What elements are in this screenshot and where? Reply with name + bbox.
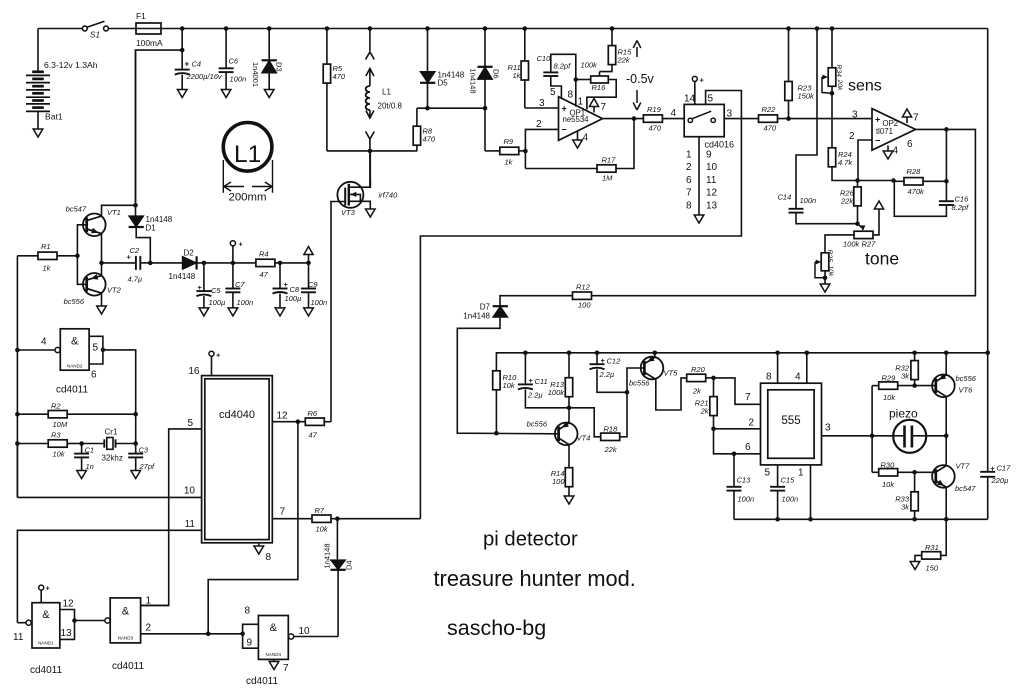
transistor VT7 bc547 bbox=[932, 465, 955, 488]
svg-text:6: 6 bbox=[91, 370, 97, 381]
transistor VT6 bc556 bbox=[932, 375, 955, 398]
wire: NAND3 input 1 bbox=[141, 604, 169, 606]
svg-text:R3: R3 bbox=[51, 431, 61, 440]
svg-text:4: 4 bbox=[583, 133, 589, 144]
svg-text:1n4148: 1n4148 bbox=[463, 312, 490, 321]
diode D1 1n4148 bbox=[133, 203, 138, 208]
counter cd4040 bbox=[202, 376, 273, 543]
svg-text:8.2pf: 8.2pf bbox=[554, 62, 572, 71]
wire: cd4040 pin 7 output bbox=[272, 518, 312, 520]
wire: fuse branch down-left bbox=[180, 48, 185, 53]
svg-text:11: 11 bbox=[185, 519, 196, 530]
svg-text:10M: 10M bbox=[53, 420, 68, 429]
resistor R2 10M bbox=[15, 412, 20, 417]
svg-text:7: 7 bbox=[913, 113, 919, 124]
svg-text:irf740: irf740 bbox=[379, 191, 399, 200]
supply arrow (OP1 pin 7) bbox=[593, 107, 595, 113]
svg-text:R25: R25 bbox=[826, 250, 833, 263]
wire: cd4016 output bbox=[724, 118, 758, 120]
svg-text:D6: D6 bbox=[492, 69, 501, 79]
wire: OP1 inverting input bbox=[525, 129, 558, 168]
svg-text:cd4011: cd4011 bbox=[30, 665, 63, 676]
svg-text:&: & bbox=[71, 336, 79, 348]
capacitor C17 220u bbox=[987, 353, 989, 472]
svg-text:10k: 10k bbox=[827, 266, 834, 278]
ground (C7) bbox=[228, 308, 238, 316]
analog switch cd4016 bbox=[684, 104, 724, 136]
capacitor C12 2.2u bbox=[595, 351, 600, 356]
potentiometer R27 100k tone bbox=[858, 224, 862, 228]
wire: left feedback rail bbox=[16, 256, 18, 498]
svg-text:tl071: tl071 bbox=[876, 127, 893, 136]
svg-text:bc556: bc556 bbox=[629, 379, 650, 388]
inductor L1 search coil bbox=[368, 26, 373, 31]
diode D7 1n4148 bbox=[493, 306, 508, 317]
nand gate NAND4 cd4011 bbox=[258, 616, 288, 660]
wire: bottom rail bbox=[734, 518, 988, 520]
svg-text:8: 8 bbox=[568, 90, 574, 101]
svg-text:20k: 20k bbox=[836, 79, 843, 92]
svg-text:D5: D5 bbox=[438, 79, 449, 88]
svg-text:bc547: bc547 bbox=[66, 205, 87, 214]
svg-text:10: 10 bbox=[299, 626, 311, 637]
svg-text:100n: 100n bbox=[230, 75, 247, 84]
svg-text:+: + bbox=[239, 240, 244, 249]
switch S1 bbox=[38, 28, 82, 30]
svg-text:6.3-12v 1.3Ah: 6.3-12v 1.3Ah bbox=[44, 60, 98, 70]
resistor R1 1k bbox=[17, 255, 38, 257]
svg-text:100k: 100k bbox=[581, 61, 599, 70]
resistor R11 bbox=[523, 26, 528, 31]
ground (R14) bbox=[564, 496, 574, 504]
svg-text:1: 1 bbox=[686, 150, 692, 161]
svg-text:9: 9 bbox=[247, 638, 253, 649]
svg-text:VT1: VT1 bbox=[107, 208, 121, 217]
svg-text:+: + bbox=[198, 283, 203, 292]
resistor R23 150k bbox=[786, 26, 791, 31]
svg-text:47: 47 bbox=[309, 431, 318, 440]
svg-text:5: 5 bbox=[708, 94, 714, 105]
capacitor C5 100u bbox=[203, 263, 205, 291]
potentiometer R25 10k bbox=[821, 253, 829, 271]
capacitor C13 100n bbox=[733, 454, 735, 487]
svg-text:ne5534: ne5534 bbox=[563, 115, 590, 124]
resistor R10 10k bbox=[493, 371, 500, 390]
ground (cd4040 pin 8) bbox=[258, 543, 260, 546]
potentiometer R34 sens bbox=[830, 26, 835, 31]
svg-text:6: 6 bbox=[745, 442, 751, 453]
svg-text:Bat1: Bat1 bbox=[45, 112, 63, 122]
svg-text:NAND1: NAND1 bbox=[38, 641, 54, 646]
svg-text:7: 7 bbox=[745, 392, 751, 403]
svg-text:2k: 2k bbox=[692, 387, 702, 396]
svg-text:2: 2 bbox=[536, 119, 542, 130]
svg-text:2.2µ: 2.2µ bbox=[527, 391, 543, 400]
svg-text:6: 6 bbox=[907, 139, 913, 150]
svg-text:VT7: VT7 bbox=[956, 462, 971, 471]
annotation -0.5v bbox=[636, 47, 638, 57]
capacitor C10 8.2pf bbox=[551, 76, 562, 99]
diode D6 1n4148 bbox=[483, 26, 488, 31]
ground (D3) bbox=[264, 90, 274, 98]
svg-text:VT4: VT4 bbox=[577, 434, 591, 443]
svg-text:10: 10 bbox=[706, 162, 718, 173]
svg-text:tone: tone bbox=[865, 249, 899, 269]
svg-text:R17: R17 bbox=[602, 156, 617, 165]
svg-text:NAND4: NAND4 bbox=[266, 652, 282, 657]
svg-text:22k: 22k bbox=[840, 197, 854, 206]
capacitor C7 100n bbox=[231, 261, 236, 266]
svg-text:11: 11 bbox=[13, 632, 24, 643]
svg-text:1k: 1k bbox=[505, 158, 514, 167]
battery Bat1 bbox=[37, 29, 39, 72]
svg-text:&: & bbox=[42, 609, 50, 621]
svg-text:C7: C7 bbox=[235, 280, 245, 289]
svg-text:+: + bbox=[562, 104, 567, 114]
coil L1 annotation circle bbox=[223, 123, 272, 172]
svg-text:R34: R34 bbox=[835, 65, 842, 78]
svg-text:2200µ/16v: 2200µ/16v bbox=[186, 72, 223, 81]
svg-text:22k: 22k bbox=[617, 56, 631, 65]
capacitor C14 100n bbox=[789, 208, 804, 210]
fuse F1 bbox=[108, 28, 136, 30]
svg-text:100: 100 bbox=[578, 301, 591, 310]
svg-text:6: 6 bbox=[686, 175, 692, 186]
resistor R9 bbox=[485, 150, 500, 152]
svg-text:R7: R7 bbox=[315, 506, 325, 515]
ground (battery) bbox=[33, 129, 43, 137]
ground (R25) bbox=[820, 284, 830, 292]
crystal Cr1 32khz bbox=[82, 443, 105, 445]
svg-text:C3: C3 bbox=[139, 446, 149, 455]
svg-text:treasure hunter mod.: treasure hunter mod. bbox=[434, 566, 636, 591]
svg-text:470: 470 bbox=[423, 135, 436, 144]
svg-text:10k: 10k bbox=[53, 450, 66, 459]
capacitor C6 bbox=[224, 26, 229, 31]
wire: cd4040 pin 12 output bbox=[272, 421, 305, 423]
svg-text:14: 14 bbox=[684, 94, 696, 105]
svg-text:10k: 10k bbox=[882, 480, 895, 489]
testpoint + (NAND1 pin14) bbox=[39, 585, 44, 590]
resistor R24 4.7k bbox=[831, 147, 833, 149]
wire: +V top rail bbox=[161, 28, 988, 30]
svg-text:27pf: 27pf bbox=[139, 462, 156, 471]
svg-text:4: 4 bbox=[41, 337, 47, 348]
svg-text:2: 2 bbox=[146, 623, 152, 634]
svg-text:+: + bbox=[216, 351, 221, 360]
svg-text:5: 5 bbox=[93, 343, 99, 354]
svg-text:1n4148: 1n4148 bbox=[169, 272, 196, 281]
ground (C4) bbox=[177, 90, 187, 98]
svg-text:32khz: 32khz bbox=[102, 454, 123, 463]
svg-text:+: + bbox=[284, 280, 289, 289]
resistor R33 3k bbox=[914, 472, 916, 492]
resistor R4 47 bbox=[256, 259, 275, 266]
svg-text:13: 13 bbox=[706, 200, 718, 211]
svg-text:R4: R4 bbox=[259, 250, 269, 259]
svg-text:2.2µ: 2.2µ bbox=[599, 370, 615, 379]
svg-text:9: 9 bbox=[706, 150, 712, 161]
svg-text:100k: 100k bbox=[548, 388, 566, 397]
svg-text:C1: C1 bbox=[85, 446, 95, 455]
resistor R26 22k bbox=[854, 187, 861, 206]
svg-text:470k: 470k bbox=[908, 187, 926, 196]
svg-text:L1: L1 bbox=[234, 141, 261, 168]
svg-text:10k: 10k bbox=[316, 525, 329, 534]
svg-text:+: + bbox=[601, 356, 606, 365]
svg-text:R2: R2 bbox=[51, 402, 61, 411]
resistor R18 22k bbox=[569, 408, 601, 437]
diode D5 1n4148 bbox=[425, 26, 430, 31]
svg-text:NAND3: NAND3 bbox=[118, 636, 134, 641]
svg-text:3k: 3k bbox=[901, 372, 910, 381]
svg-text:100n: 100n bbox=[782, 495, 799, 504]
resistor R7 10k bbox=[312, 515, 331, 522]
svg-text:4.7µ: 4.7µ bbox=[128, 275, 143, 284]
svg-text:100mA: 100mA bbox=[136, 38, 163, 48]
svg-text:VT6: VT6 bbox=[959, 386, 974, 395]
resistor R31 150 bbox=[940, 519, 946, 555]
svg-text:200mm: 200mm bbox=[229, 192, 267, 204]
svg-text:2: 2 bbox=[849, 131, 855, 142]
svg-text:bc556: bc556 bbox=[527, 420, 548, 429]
wire: 555 pin 1 bbox=[810, 465, 812, 519]
timer 555 bbox=[761, 383, 822, 465]
svg-text:sascho-bg: sascho-bg bbox=[447, 616, 546, 640]
svg-text:C6: C6 bbox=[229, 57, 239, 66]
ground (C8) bbox=[275, 308, 285, 316]
ground (VT2) bbox=[97, 306, 107, 314]
svg-text:10k: 10k bbox=[503, 381, 516, 390]
capacitor C1 1n bbox=[81, 444, 83, 454]
svg-text:R1: R1 bbox=[41, 242, 51, 251]
svg-text:bc547: bc547 bbox=[955, 484, 976, 493]
svg-text:100n: 100n bbox=[738, 495, 755, 504]
transistor VT2 bc556 bbox=[77, 256, 86, 284]
wire: cd4016 control pin 5 loop bbox=[420, 91, 741, 519]
wire: OP2 output loop bbox=[592, 129, 976, 295]
svg-text:−: − bbox=[875, 136, 880, 146]
svg-text:12: 12 bbox=[277, 411, 289, 422]
svg-text:150k: 150k bbox=[798, 92, 816, 101]
svg-text:1n4148: 1n4148 bbox=[469, 69, 478, 94]
wire: clamp node bbox=[417, 107, 485, 109]
svg-text:100n: 100n bbox=[311, 298, 328, 307]
svg-text:C17: C17 bbox=[997, 464, 1012, 473]
wire: OP1 output bbox=[603, 118, 644, 120]
svg-text:&: & bbox=[270, 622, 278, 634]
svg-text:11: 11 bbox=[706, 175, 717, 186]
svg-text:20t/0.8: 20t/0.8 bbox=[378, 102, 403, 111]
svg-text:8: 8 bbox=[266, 552, 272, 563]
wire: audio +V rail bbox=[495, 390, 497, 433]
svg-text:D3: D3 bbox=[275, 62, 284, 72]
svg-text:VT3: VT3 bbox=[341, 208, 356, 217]
svg-text:12: 12 bbox=[63, 599, 75, 610]
capacitor C9 100n bbox=[306, 261, 311, 266]
svg-text:7: 7 bbox=[686, 188, 692, 199]
svg-text:VT5: VT5 bbox=[664, 369, 679, 378]
svg-text:cd4011: cd4011 bbox=[56, 385, 89, 396]
capacitor C3 27pf bbox=[135, 444, 137, 454]
svg-text:8.2pf: 8.2pf bbox=[952, 203, 970, 212]
wire: 555 output pin 3 bbox=[822, 435, 894, 437]
nand gate NAND1 cd4011 bbox=[32, 603, 60, 648]
svg-text:100µ: 100µ bbox=[209, 298, 226, 307]
wire: VT3 gate bbox=[331, 202, 345, 422]
svg-text:D1: D1 bbox=[146, 224, 157, 233]
svg-text:3k: 3k bbox=[901, 503, 910, 512]
capacitor C15 100n bbox=[777, 465, 779, 487]
svg-text:pi detector: pi detector bbox=[483, 529, 578, 551]
resistor R28 470k bbox=[894, 180, 905, 182]
svg-text:2: 2 bbox=[686, 162, 692, 173]
svg-text:R19: R19 bbox=[647, 105, 662, 114]
trimmer R16 100k bbox=[576, 79, 591, 81]
resistor R22 470 bbox=[759, 115, 778, 122]
svg-text:1k: 1k bbox=[43, 264, 52, 273]
wire: driver input column bbox=[871, 386, 873, 473]
wire: rectifier output node bbox=[204, 262, 309, 264]
svg-text:+: + bbox=[529, 376, 534, 385]
svg-text:3: 3 bbox=[852, 110, 858, 121]
svg-text:D4: D4 bbox=[345, 560, 354, 570]
svg-text:4.7k: 4.7k bbox=[838, 158, 853, 167]
svg-text:R31: R31 bbox=[925, 543, 939, 552]
svg-text:+: + bbox=[990, 464, 995, 473]
diode D3 1n4001 bbox=[267, 26, 272, 31]
svg-text:R22: R22 bbox=[762, 105, 777, 114]
svg-text:16: 16 bbox=[188, 366, 200, 377]
wire: cd4040 pin 11 reset bbox=[17, 530, 201, 622]
svg-text:1k: 1k bbox=[513, 71, 522, 80]
svg-text:C8: C8 bbox=[290, 285, 300, 294]
svg-text:5: 5 bbox=[765, 468, 771, 479]
wire: 555 power pins bbox=[777, 353, 779, 383]
svg-text:1: 1 bbox=[798, 468, 804, 479]
diode D2 1n4148 bbox=[150, 262, 182, 264]
wire: 555 pins 2,6 bbox=[714, 428, 761, 430]
resistor R32 3k bbox=[912, 351, 917, 356]
wire: OP2 inverting input bbox=[858, 140, 872, 181]
svg-text:C2: C2 bbox=[130, 246, 140, 255]
svg-text:13: 13 bbox=[61, 628, 73, 639]
svg-text:10k: 10k bbox=[883, 393, 896, 402]
svg-text:C11: C11 bbox=[535, 377, 548, 386]
svg-text:470: 470 bbox=[764, 124, 777, 133]
svg-text:3: 3 bbox=[825, 423, 831, 434]
svg-text:8: 8 bbox=[686, 200, 692, 211]
svg-text:C15: C15 bbox=[781, 476, 796, 485]
svg-text:100n: 100n bbox=[800, 196, 817, 205]
svg-text:555: 555 bbox=[781, 415, 800, 427]
wire: cd4040 pin 5 bbox=[141, 429, 202, 606]
supply arrow (OP2 pin 7) bbox=[906, 117, 908, 123]
resistor R8 bbox=[416, 108, 418, 127]
capacitor C4 bbox=[180, 26, 185, 31]
svg-text:C10: C10 bbox=[537, 54, 552, 63]
svg-text:−: − bbox=[562, 125, 567, 135]
svg-text:150: 150 bbox=[926, 564, 939, 573]
supply arrow (low-V rail) bbox=[308, 255, 310, 263]
ground (C5) bbox=[199, 308, 209, 316]
svg-text:D7: D7 bbox=[480, 303, 491, 312]
svg-text:1: 1 bbox=[146, 596, 152, 607]
svg-text:R6: R6 bbox=[308, 409, 318, 418]
svg-text:R9: R9 bbox=[504, 137, 514, 146]
svg-text:1n4001: 1n4001 bbox=[251, 62, 260, 87]
svg-text:12: 12 bbox=[706, 188, 718, 199]
svg-text:470: 470 bbox=[649, 124, 662, 133]
ground (OP2 pin 4) bbox=[887, 146, 889, 152]
svg-text:+: + bbox=[46, 584, 51, 593]
resistor R5 bbox=[325, 26, 330, 31]
capacitor C11 2.2u bbox=[523, 351, 528, 356]
svg-text:R20: R20 bbox=[691, 365, 706, 374]
ground (R31) bbox=[910, 562, 920, 570]
svg-text:D2: D2 bbox=[184, 249, 195, 258]
svg-text:100µ: 100µ bbox=[285, 294, 302, 303]
svg-text:Cr1: Cr1 bbox=[105, 428, 118, 437]
ground (cd4016 unused pins) bbox=[698, 137, 700, 215]
svg-text:4: 4 bbox=[671, 108, 677, 119]
svg-text:3: 3 bbox=[539, 98, 545, 109]
wire: NAND4 inputs 8,9 loop bbox=[243, 624, 259, 648]
svg-text:47: 47 bbox=[260, 270, 269, 279]
wire: NAND1 inputs 12,13 loop bbox=[60, 610, 75, 640]
svg-text:cd4011: cd4011 bbox=[246, 676, 279, 687]
svg-text:cd4011: cd4011 bbox=[112, 661, 145, 672]
nand gate NAND2 cd4011 bbox=[60, 329, 89, 370]
svg-text:R29: R29 bbox=[882, 374, 897, 383]
svg-text:C5: C5 bbox=[211, 286, 221, 295]
wire: cd4040 pin 10 clock bbox=[17, 496, 201, 498]
svg-text:sens: sens bbox=[848, 78, 882, 95]
svg-text:8: 8 bbox=[766, 372, 772, 383]
resistor R20 2k bbox=[687, 374, 706, 381]
ground (C1) bbox=[77, 471, 87, 479]
wire: NAND3 pin2 to cd4040 pin12 bbox=[208, 422, 298, 634]
svg-text:8: 8 bbox=[245, 606, 251, 617]
piezo transducer bbox=[893, 420, 926, 453]
op-amp OP2 tl071 bbox=[872, 109, 916, 151]
testpoint + (rectifier) bbox=[230, 241, 235, 246]
resistor R3 10k bbox=[15, 441, 20, 446]
svg-text:C9: C9 bbox=[308, 280, 318, 289]
diode D4 1n4148 bbox=[336, 519, 338, 560]
svg-text:R16: R16 bbox=[592, 83, 607, 92]
ground (NAND4 pin 7) bbox=[273, 659, 275, 661]
testpoint + (cd4016 pin14) bbox=[692, 76, 697, 81]
svg-text:R30: R30 bbox=[881, 461, 896, 470]
capacitor C8 100u bbox=[278, 261, 283, 266]
resistor R30 10k bbox=[872, 471, 879, 473]
svg-text:+: + bbox=[185, 60, 190, 69]
transistor VT3 irf740 bbox=[369, 151, 371, 187]
resistor R17 1M feedback bbox=[525, 168, 597, 170]
resistor R21 2k bbox=[713, 378, 715, 397]
svg-text:C4: C4 bbox=[192, 60, 202, 69]
transistor VT5 bc556 bbox=[653, 351, 658, 356]
svg-text:+: + bbox=[700, 76, 705, 85]
op-amp OP1 ne5534 bbox=[525, 107, 559, 109]
svg-text:L1: L1 bbox=[382, 88, 391, 97]
svg-text:5: 5 bbox=[187, 418, 193, 429]
wire: NAND4 output 10 bbox=[289, 634, 294, 639]
svg-text:+: + bbox=[875, 115, 880, 125]
ground (OP1 pin 4) bbox=[577, 131, 579, 140]
svg-text:4: 4 bbox=[795, 372, 801, 383]
